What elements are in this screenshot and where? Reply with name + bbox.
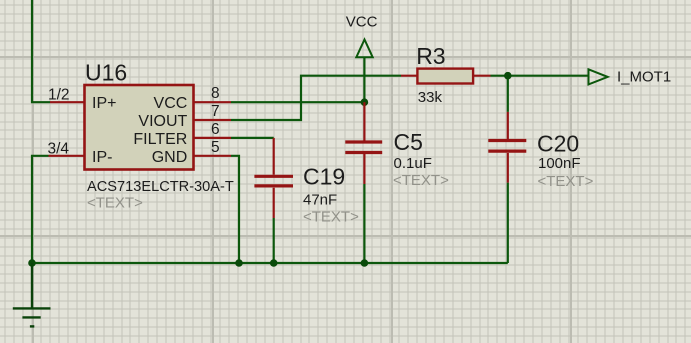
svg-text:VCC: VCC xyxy=(154,95,188,112)
svg-text:VCC: VCC xyxy=(346,13,378,30)
pin name FILTER xyxy=(133,131,187,148)
resistor R3 body xyxy=(417,69,473,84)
wire: FILTER pin 6 to C19 xyxy=(231,137,274,139)
pin name IP- xyxy=(92,149,112,166)
svg-text:ACS713ELCTR-30A-T: ACS713ELCTR-30A-T xyxy=(87,179,234,195)
svg-text:FILTER: FILTER xyxy=(133,131,187,148)
svg-text:VIOUT: VIOUT xyxy=(138,113,187,130)
svg-text:I_MOT1: I_MOT1 xyxy=(617,68,671,85)
label C5 TEXT placeholder xyxy=(393,172,449,189)
terminal I_MOT1 xyxy=(589,69,608,84)
wire: GND pin 5 down to bus xyxy=(231,156,239,263)
wire: node B down to C20 xyxy=(507,76,509,112)
svg-text:C20: C20 xyxy=(537,131,579,157)
label C5 xyxy=(394,129,423,155)
pin number 7 xyxy=(211,103,220,120)
svg-text:33k: 33k xyxy=(418,89,443,106)
R3 right lead xyxy=(473,75,491,77)
junction: ground bus at left vertical xyxy=(28,259,36,267)
label 33k xyxy=(418,89,443,106)
junction: ground bus at C5 xyxy=(361,259,369,267)
svg-text:R3: R3 xyxy=(416,43,445,69)
label 0.1uF xyxy=(394,155,432,172)
wire: IP- row to left vertical down to ground bus xyxy=(32,156,49,263)
junction: ground bus at C19 xyxy=(270,259,278,267)
capacitor C20 xyxy=(488,112,526,183)
label 100nF xyxy=(538,155,581,172)
label C20 xyxy=(537,131,579,157)
pin name VCC xyxy=(154,95,188,112)
U16 pin 8 (VCC) stub xyxy=(194,101,231,103)
label C19 xyxy=(303,164,345,190)
IC U16 body xyxy=(85,85,194,170)
svg-text:3/4: 3/4 xyxy=(48,140,70,157)
svg-text:47nF: 47nF xyxy=(303,192,337,209)
power symbol VCC xyxy=(356,40,372,58)
node A junction (VCC / pin8 / C5) xyxy=(361,98,369,106)
pin number 5 xyxy=(211,139,220,156)
svg-text:<TEXT>: <TEXT> xyxy=(538,173,594,190)
svg-text:<TEXT>: <TEXT> xyxy=(303,209,359,226)
svg-text:IP+: IP+ xyxy=(92,95,116,112)
label U16 xyxy=(85,60,127,86)
svg-text:U16: U16 xyxy=(85,60,127,86)
label C20 TEXT placeholder xyxy=(538,173,594,190)
wire: bottom ground bus xyxy=(32,262,508,264)
U16 pin 6 (FILTER) stub xyxy=(194,137,231,139)
svg-text:6: 6 xyxy=(211,121,220,138)
wire: R3 output to terminal xyxy=(491,75,589,77)
svg-text:7: 7 xyxy=(211,103,220,120)
svg-text:GND: GND xyxy=(152,149,188,166)
svg-text:8: 8 xyxy=(211,85,220,102)
wire: VCC pin 8 to node A xyxy=(231,101,364,103)
wire: VCC stem down to node A xyxy=(363,57,365,103)
label 47nF xyxy=(303,192,337,209)
pin name GND xyxy=(152,149,188,166)
svg-text:IP-: IP- xyxy=(92,149,112,166)
label U16 TEXT placeholder xyxy=(87,195,143,212)
label I_MOT1 xyxy=(617,68,671,85)
label VCC power xyxy=(346,13,378,30)
svg-text:1/2: 1/2 xyxy=(48,86,70,103)
wire: C20 bottom lead down to bus corner xyxy=(507,183,509,263)
pin number 1/2 xyxy=(48,86,70,103)
pin number 6 xyxy=(211,121,220,138)
capacitor C19 xyxy=(254,138,293,218)
R3 left lead xyxy=(401,75,417,77)
label R3 xyxy=(416,43,445,69)
wire: left vertical from top edge to IP+ row xyxy=(32,0,50,102)
svg-text:0.1uF: 0.1uF xyxy=(394,155,432,172)
svg-text:5: 5 xyxy=(211,139,220,156)
pin number 3/4 xyxy=(48,140,70,157)
svg-text:100nF: 100nF xyxy=(538,155,581,172)
wire: C19 bottom lead to bus xyxy=(273,218,275,263)
label C19 TEXT placeholder xyxy=(303,209,359,226)
U16 pin 3/4 (IP-) stub xyxy=(49,155,85,157)
pin name VIOUT xyxy=(138,113,187,130)
svg-text:<TEXT>: <TEXT> xyxy=(87,195,143,212)
capacitor C5 xyxy=(345,102,382,184)
node B junction (R3 / terminal / C20) xyxy=(504,72,512,80)
wire: VIOUT pin 7 up and right to R3 xyxy=(231,76,401,120)
U16 pin 7 (VIOUT) stub xyxy=(194,119,231,121)
U16 pin 5 (GND) stub xyxy=(194,155,231,157)
wire: C5 bottom lead to bus xyxy=(363,184,365,263)
U16 pin 1/2 (IP+) stub xyxy=(50,101,84,103)
pin number 8 xyxy=(211,85,220,102)
label ACS713ELCTR-30A-T xyxy=(87,179,234,195)
junction: ground bus at pin5 drop xyxy=(235,259,243,267)
svg-text:<TEXT>: <TEXT> xyxy=(393,172,449,189)
pin name IP+ xyxy=(92,95,116,112)
svg-text:C19: C19 xyxy=(303,164,345,190)
svg-text:C5: C5 xyxy=(394,129,423,155)
ground symbol xyxy=(13,263,51,326)
